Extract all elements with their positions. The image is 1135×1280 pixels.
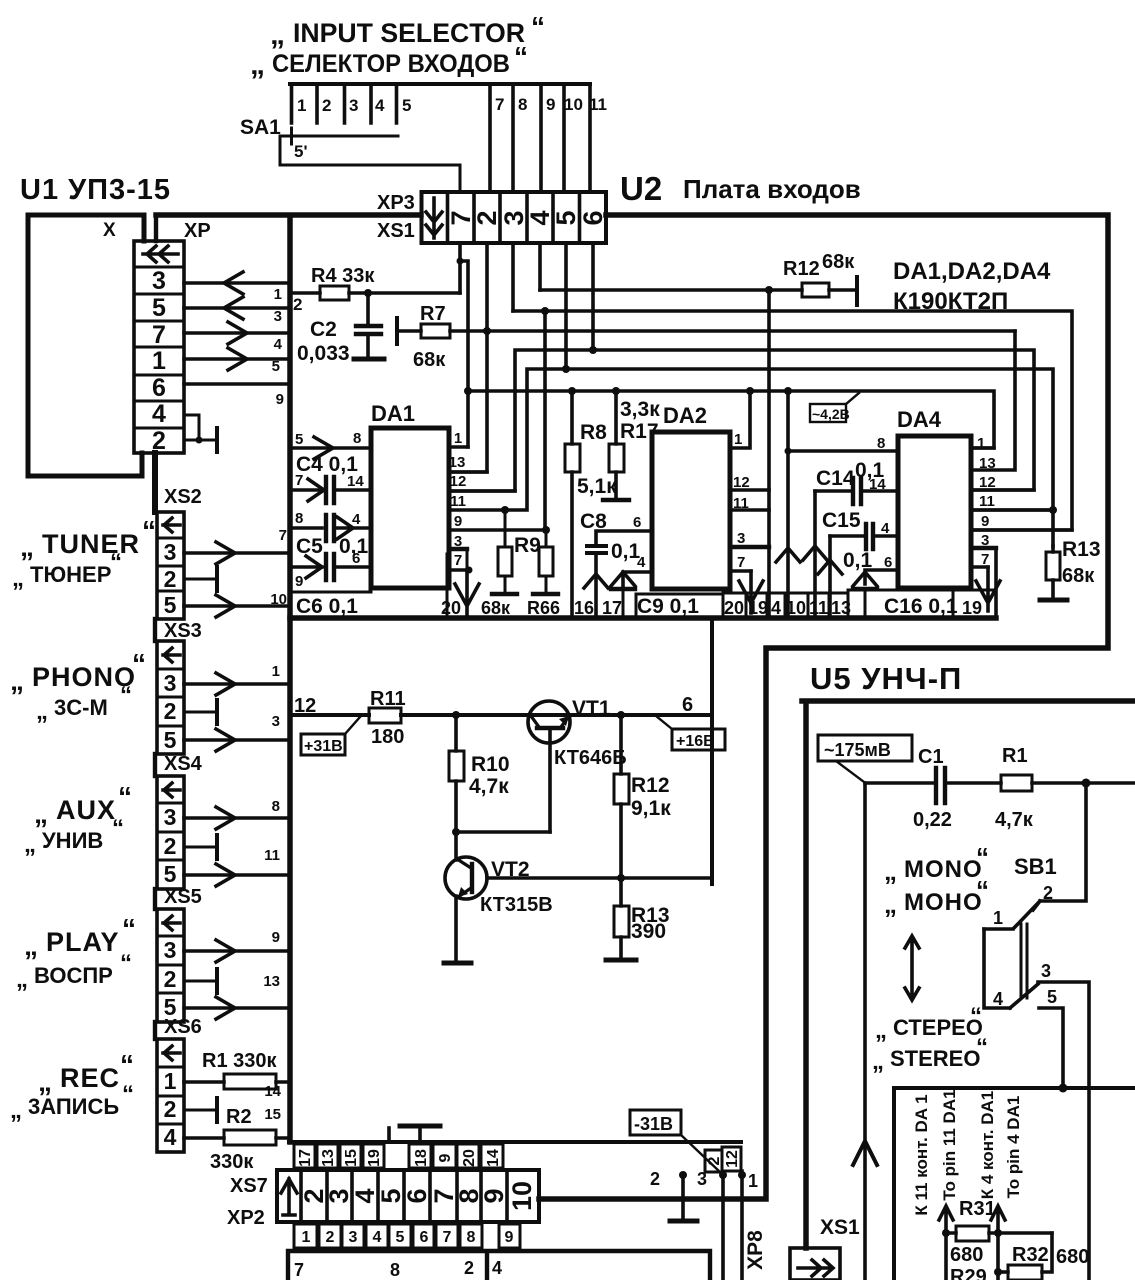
svg-text:5: 5 [295, 431, 303, 448]
SA1 contact labels 1 2 3 4 5 [297, 96, 411, 115]
wire XS3 pin3 [184, 682, 290, 686]
svg-text:9: 9 [454, 513, 462, 530]
svg-text:3: 3 [164, 804, 177, 830]
arrow down DA2 pin7 to strip [739, 571, 763, 613]
resistor R13 68к [1051, 546, 1055, 552]
svg-text:XS6: XS6 [164, 1016, 202, 1038]
svg-text:68к: 68к [413, 349, 446, 371]
svg-text:To pin 11 DA1: To pin 11 DA1 [940, 1089, 959, 1200]
svg-text:DA4: DA4 [897, 407, 942, 432]
svg-text:18: 18 [413, 1149, 430, 1167]
DA1 pin3 wire [449, 547, 467, 551]
svg-text:R12: R12 [631, 774, 670, 797]
svg-text:3: 3 [737, 530, 745, 547]
svg-text:9: 9 [479, 1188, 509, 1203]
wire VT1 base row [456, 830, 550, 834]
svg-text:8: 8 [467, 1229, 476, 1246]
wire DA2 pin1 [746, 387, 754, 395]
wire DA2 pin11 [730, 508, 769, 512]
svg-text:“: “ [970, 1003, 982, 1030]
svg-text:20: 20 [724, 598, 744, 618]
junction cell7 branch [457, 258, 464, 265]
connector XP8 cell 12 [722, 1147, 741, 1171]
DA1 right pin wires [449, 472, 546, 530]
junction x998 [994, 1229, 1002, 1237]
svg-text:К 11 конт. DA 1: К 11 конт. DA 1 [912, 1094, 931, 1215]
svg-text:„: „ [270, 18, 285, 51]
ground above connector [418, 1127, 422, 1142]
svg-text:3: 3 [272, 713, 280, 730]
wire XS3 pin2 to terminal [184, 711, 217, 714]
wire XP pin6 row [184, 382, 290, 386]
svg-text:XS4: XS4 [164, 753, 203, 775]
junction R12 top [617, 711, 625, 719]
svg-text:DA2: DA2 [663, 403, 707, 428]
arrow on XS4 pin5 wire [216, 864, 235, 886]
wire XS4 pin3 [184, 816, 290, 820]
svg-text:“: “ [142, 515, 156, 546]
svg-text:3: 3 [349, 96, 358, 115]
switch SA1 top bus [290, 82, 590, 86]
svg-text:2: 2 [293, 295, 302, 314]
svg-text:SA1: SA1 [240, 116, 281, 139]
svg-text:330к: 330к [210, 1151, 254, 1173]
wire DA4 pin13 [971, 331, 1015, 470]
svg-text:15: 15 [264, 1106, 281, 1123]
terminal bar XS5 [215, 969, 219, 993]
svg-text:19: 19 [366, 1149, 383, 1167]
wire riser C15 to strip cell 13 [828, 536, 832, 617]
svg-text:6: 6 [420, 1229, 429, 1246]
svg-text:17: 17 [602, 598, 622, 618]
svg-text:МОНО: МОНО [904, 889, 983, 916]
svg-text:“: “ [122, 1081, 134, 1108]
wire XP8 pin 3 down [721, 1172, 725, 1280]
svg-text:VT1: VT1 [572, 697, 611, 720]
svg-text:9: 9 [505, 1229, 514, 1246]
svg-text:C5: C5 [296, 535, 323, 558]
wire DA4 pin3 [971, 546, 996, 550]
svg-text:7: 7 [454, 552, 462, 569]
svg-text:2: 2 [326, 1229, 335, 1246]
svg-text:„: „ [12, 565, 24, 592]
svg-text:КТ315В: КТ315В [480, 894, 553, 916]
U2 pin labels 9 13 [263, 929, 280, 990]
svg-text:PLAY: PLAY [46, 927, 120, 957]
svg-text:2: 2 [164, 833, 177, 859]
svg-text:1: 1 [734, 431, 742, 448]
svg-text:C15: C15 [822, 509, 861, 532]
svg-text:“: “ [514, 41, 528, 72]
svg-text:6: 6 [352, 550, 360, 567]
svg-text:R11: R11 [370, 688, 406, 710]
svg-text:5': 5' [294, 142, 308, 161]
junction pin 2 ground [679, 1171, 687, 1179]
svg-text:+16В: +16В [676, 733, 715, 750]
label TUNER [20, 515, 156, 562]
terminal bar XS4 [215, 835, 219, 859]
connector XS7/XP2 main row [277, 1170, 539, 1222]
terminal bar R7 left [395, 318, 399, 344]
resistor R12 body [802, 283, 829, 297]
strip cell C6 top line [290, 591, 371, 594]
svg-text:4: 4 [152, 400, 166, 428]
svg-text:11: 11 [809, 598, 828, 618]
junction R10 top [452, 711, 460, 719]
svg-text:-31В: -31В [634, 1114, 673, 1134]
svg-text:R4 33к: R4 33к [311, 265, 375, 287]
junction pin 1 [738, 1171, 746, 1179]
svg-text:„: „ [20, 531, 34, 562]
svg-text:5: 5 [396, 1229, 405, 1246]
svg-text:MONO: MONO [904, 856, 983, 883]
svg-text:68к: 68к [1062, 565, 1095, 587]
svg-text:C6 0,1: C6 0,1 [296, 595, 358, 618]
svg-text:1: 1 [164, 1068, 177, 1094]
wire rail XS2 to XS3 [153, 619, 157, 641]
label PHONO [10, 648, 146, 696]
svg-text:1: 1 [274, 286, 282, 303]
svg-text:7: 7 [443, 1229, 452, 1246]
arrow up on riser x830 [818, 560, 842, 574]
svg-text:0,033: 0,033 [297, 342, 350, 365]
svg-text:“: “ [120, 682, 132, 709]
svg-text:C2: C2 [310, 318, 337, 341]
svg-text:9: 9 [437, 1153, 454, 1162]
U2 edge pin labels 1 3 4 5 9 [272, 286, 284, 408]
svg-text:DA1,DA2,DA4: DA1,DA2,DA4 [893, 258, 1051, 285]
U2 pin labels 14 15 [264, 1083, 281, 1123]
svg-text:ВОСПР: ВОСПР [34, 963, 113, 988]
svg-text:SB1: SB1 [1014, 854, 1057, 879]
svg-text:5: 5 [164, 727, 177, 753]
svg-text:5,1к: 5,1к [577, 475, 617, 498]
block U3 box bottom [288, 1251, 710, 1280]
wire x998 down [996, 1233, 1000, 1280]
svg-text:390: 390 [631, 920, 666, 943]
wall pin3/7 cell [447, 549, 467, 617]
svg-text:4: 4 [164, 1124, 177, 1150]
wire XS6 pin1 with resistor R1 [184, 1080, 290, 1084]
svg-text:7: 7 [737, 554, 745, 571]
svg-text:14: 14 [347, 473, 364, 490]
wire cell4 riser [538, 243, 542, 290]
block U5 box edges [802, 701, 1135, 1248]
block U1 box [28, 215, 144, 476]
resistor R10 [454, 715, 458, 832]
svg-text:12: 12 [450, 473, 467, 490]
svg-text:R29: R29 [950, 1266, 987, 1280]
arrow left on XP pin5 wire [224, 297, 243, 319]
svg-text:4,7к: 4,7к [995, 809, 1034, 831]
wire L2 control line y311 [513, 311, 1072, 530]
wire DA4 pin9 [971, 528, 1072, 532]
svg-text:„: „ [884, 889, 897, 919]
arrow on XS2 pin5 wire [216, 595, 235, 617]
arrow down DA4 pin7 [976, 567, 1000, 611]
svg-text:4: 4 [274, 336, 283, 353]
svg-text:3: 3 [1041, 961, 1051, 981]
svg-text:To pin 4 DA1: To pin 4 DA1 [1004, 1096, 1023, 1199]
svg-text:TUNER: TUNER [42, 529, 140, 559]
wire DA1 pin4 row with capacitor C5 [290, 526, 371, 530]
wire DA4 pin12 [971, 488, 1034, 492]
svg-text:+31В: +31В [304, 738, 343, 755]
label ~175мВ callout [818, 735, 912, 782]
wire DA1 pin6 row with capacitor C6 [290, 565, 371, 569]
wire riser C14 to strip cell 11 [813, 491, 817, 617]
junction L5 R13 [1049, 506, 1057, 514]
svg-text:17: 17 [297, 1149, 314, 1167]
resistor R9 [501, 506, 509, 514]
wire cell2 riser [449, 243, 487, 472]
DA1 right pin labels [449, 430, 467, 569]
svg-text:9,1к: 9,1к [631, 797, 671, 820]
svg-text:4: 4 [492, 1258, 502, 1278]
stub x389 [387, 1128, 391, 1142]
svg-text:68к: 68к [481, 598, 511, 618]
svg-text:“: “ [110, 549, 122, 576]
junction L5 cell5 [562, 365, 570, 373]
svg-text:12: 12 [724, 1150, 741, 1168]
svg-text:REC: REC [60, 1063, 120, 1093]
U2 pin labels 8 11 [264, 798, 280, 864]
svg-text:XS5: XS5 [164, 886, 202, 908]
wire L4 control line y350 [449, 350, 1034, 491]
arrow on XS5 pin3 wire [216, 940, 235, 962]
svg-text:2: 2 [650, 1169, 660, 1189]
svg-text:7: 7 [279, 527, 287, 544]
arrow up on riser x815 [803, 546, 827, 560]
svg-text:3: 3 [164, 539, 177, 565]
svg-text:1: 1 [993, 908, 1003, 928]
svg-text:~4,2В: ~4,2В [812, 406, 850, 422]
svg-text:“: “ [112, 815, 124, 842]
svg-text:3: 3 [349, 1229, 358, 1246]
junction R1/SB1 [1082, 779, 1091, 788]
arrow up-down mono/stereo [905, 936, 919, 1000]
arrow on XS5 pin5 wire [216, 997, 235, 1019]
svg-text:R12: R12 [783, 258, 820, 280]
resistor R4 body [320, 286, 349, 300]
wire +31V row to VT1 [290, 618, 712, 884]
wire XS5 pin2 to terminal [184, 980, 217, 983]
wire XS6 pin4 with resistor R2 [184, 1136, 290, 1140]
svg-text:ХS7: ХS7 [230, 1175, 268, 1197]
svg-text:Плата входов: Плата входов [683, 174, 861, 204]
svg-text:9: 9 [272, 929, 280, 946]
svg-text:INPUT SELECTOR: INPUT SELECTOR [293, 18, 525, 48]
svg-text:4,7к: 4,7к [469, 775, 509, 798]
wire XS2 pin2 to terminal [184, 578, 217, 581]
U2 pin labels 1 3 [272, 663, 280, 730]
svg-text:2: 2 [472, 210, 502, 225]
svg-text:“: “ [122, 913, 136, 944]
U2 pin labels 7 10 [270, 527, 287, 608]
wire XS6 pin2 to terminal [184, 1109, 217, 1112]
svg-text:2: 2 [164, 966, 177, 992]
svg-text:U2: U2 [620, 170, 662, 207]
arrow left on XP pin3 wire [224, 272, 243, 294]
svg-text:11: 11 [733, 495, 749, 512]
svg-text:5: 5 [164, 861, 177, 887]
svg-text:R66: R66 [527, 598, 560, 618]
svg-text:„: „ [872, 1048, 884, 1075]
label MONO [884, 842, 989, 886]
svg-text:“: “ [976, 1034, 988, 1061]
IC DA1 box [371, 428, 449, 588]
wire thick bus U1 to XP3 [156, 212, 421, 218]
svg-text:„: „ [16, 966, 28, 993]
svg-text:“: “ [976, 842, 989, 872]
svg-text:20: 20 [441, 598, 461, 618]
wire XS4 pin5 [184, 873, 290, 877]
wire R7 row [397, 329, 1015, 333]
resistor R11 body [369, 708, 401, 723]
connector XP cell column [134, 241, 184, 455]
svg-text:R32: R32 [1012, 1244, 1049, 1266]
terminal bar XS2 [215, 567, 219, 591]
wire XS2 pin5 [184, 604, 290, 608]
wire DA4 pin7 [971, 565, 988, 569]
svg-text:11: 11 [264, 847, 280, 864]
svg-text:5: 5 [402, 96, 411, 115]
svg-text:3,3к: 3,3к [620, 398, 660, 421]
connector XP3/XS1 pin digits [446, 210, 608, 225]
svg-text:13: 13 [449, 454, 466, 471]
svg-text:R1 330к: R1 330к [202, 1050, 277, 1072]
resistor R32 loop [1042, 1233, 1052, 1272]
svg-text:AUX: AUX [56, 795, 116, 825]
connector XS1 box [790, 1248, 840, 1280]
wire XS4 pin2 to terminal [184, 846, 217, 849]
svg-text:R31: R31 [959, 1198, 996, 1220]
svg-text:DA1: DA1 [371, 401, 415, 426]
svg-text:R2: R2 [226, 1106, 252, 1128]
label +16В callout [656, 716, 725, 750]
svg-text:ХР3: ХР3 [377, 192, 415, 214]
svg-text:УНИВ: УНИВ [42, 828, 103, 853]
strip cells 20,19,4,10,11,13 [723, 593, 848, 617]
svg-text:„: „ [10, 665, 24, 696]
svg-text:C14: C14 [816, 467, 855, 490]
junction [196, 437, 203, 444]
DA1 pin7 wire [449, 568, 469, 572]
wire XS5 pin3 [184, 949, 290, 953]
wire DA1 pin8 input row [290, 446, 371, 450]
svg-text:8: 8 [353, 430, 361, 447]
svg-text:ТЮНЕР: ТЮНЕР [30, 562, 111, 587]
label AUX [34, 781, 132, 829]
svg-text:„: „ [250, 48, 265, 81]
resistor R1 body [224, 1074, 276, 1089]
svg-text:6: 6 [682, 694, 693, 716]
ground XP8 pin2 [681, 1175, 685, 1219]
wire riser DA4 pin8 +4.2V [784, 387, 792, 395]
svg-text:14: 14 [869, 476, 886, 493]
wire R31 left down [944, 1233, 948, 1280]
junction pin 3 [719, 1171, 727, 1179]
wire DA2 pin3 [730, 545, 769, 549]
DA4 right pin labels [977, 435, 996, 568]
junction R4/C2 [364, 289, 372, 297]
wire DA2 pin7 [730, 569, 751, 573]
IC DA4 box [898, 436, 971, 588]
wall DA4 pin3/7 riser strip right [994, 548, 998, 617]
svg-text:“: “ [120, 1049, 134, 1080]
connector XS7 top pin cells [294, 1144, 503, 1168]
svg-text:1: 1 [302, 1229, 311, 1246]
label ТЮНЕР [12, 549, 122, 592]
arrow up R31 left [939, 1206, 953, 1233]
wire rail XS3 to XS4 [153, 754, 157, 776]
wire XP pin1 row [184, 357, 290, 361]
svg-text:9: 9 [981, 513, 989, 530]
resistor R66 [542, 526, 550, 534]
svg-text:R7: R7 [420, 303, 446, 325]
svg-text:3: 3 [152, 267, 166, 295]
svg-text:„: „ [24, 930, 38, 961]
connector XP8 cell 2 [705, 1150, 722, 1172]
svg-text:4: 4 [352, 511, 361, 528]
svg-text:U5 УНЧ-П: U5 УНЧ-П [810, 661, 962, 696]
wire DA4 pin1 [971, 446, 994, 450]
label STEREO [872, 1034, 988, 1075]
junction pin7 [466, 567, 473, 574]
svg-text:10: 10 [270, 591, 287, 608]
wire U5 input drop [863, 783, 867, 1280]
svg-text:0,22: 0,22 [913, 809, 952, 831]
svg-text:6: 6 [633, 514, 641, 531]
junction R7 line / cell2 riser [483, 327, 491, 335]
wire DA4 pin8 [788, 449, 898, 453]
wire DA2 pin12 [730, 488, 769, 492]
junction L4 cell6 [589, 346, 597, 354]
svg-text:ХР: ХР [184, 220, 211, 242]
svg-text:XS3: XS3 [164, 620, 202, 642]
wire cell6 riser [591, 243, 595, 350]
ground R13 [606, 958, 636, 963]
svg-text:680: 680 [1056, 1246, 1089, 1268]
svg-text:9: 9 [546, 95, 555, 114]
svg-text:R10: R10 [471, 753, 510, 776]
arrow right on XP pin7 wire [228, 322, 247, 344]
strip C9 cell top [636, 594, 723, 617]
svg-text:2: 2 [706, 1156, 723, 1165]
resistor R1 body [1001, 775, 1032, 791]
label PLAY [24, 913, 136, 961]
wire bottom edge to XS7 [289, 1140, 741, 1144]
svg-text:“: “ [976, 875, 989, 905]
svg-text:3: 3 [164, 937, 177, 963]
arrow on XS4 pin3 wire [216, 807, 235, 829]
capacitor C1 [936, 768, 945, 803]
svg-text:4: 4 [993, 989, 1003, 1009]
resistor R8 [568, 387, 576, 395]
wire XP pin7 row [184, 331, 290, 335]
arrow on pin8 row [314, 437, 333, 459]
junction SB1 wire to box [1059, 1084, 1068, 1093]
wire L5 control line y369 [449, 369, 1053, 546]
label ВОСПР [16, 950, 132, 993]
svg-text:КТ646Б: КТ646Б [554, 747, 627, 769]
connector XP3/XS1 body [422, 192, 607, 243]
wire DA1 pin1 [449, 445, 468, 449]
svg-text:1: 1 [748, 1171, 758, 1191]
svg-text:“: “ [132, 648, 146, 679]
svg-text:5: 5 [152, 294, 166, 322]
svg-text:R8: R8 [580, 421, 607, 444]
